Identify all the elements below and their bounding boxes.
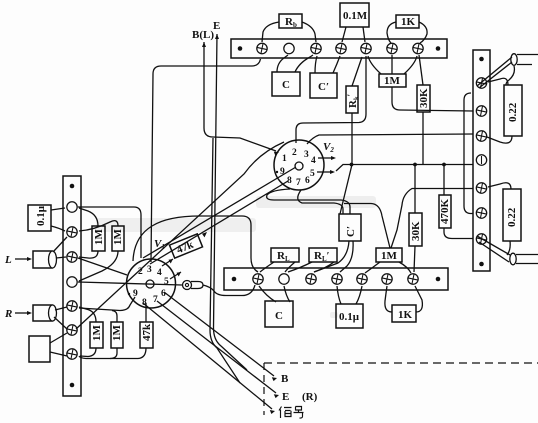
resistor Rk' box [346,86,358,113]
wire terminal1 to top jack [477,57,512,86]
V2 pin4 arrow [318,157,333,159]
wire bus beside right strip [464,93,473,214]
wire top jack to 0.22a [506,66,514,85]
V2 pin5 arrow [317,171,332,173]
svg-text:C: C [282,79,290,91]
svg-text:L: L [4,254,12,266]
capacitor 0.22 box lower [503,189,521,241]
wire diag V1 pin3 to V2 pin8 [150,181,288,264]
resistor RL' box [309,248,337,262]
wire left strip t3 to V1 edge [78,258,127,275]
wire diag V2 to left strip t6 [76,142,284,329]
wire L jack leads [53,237,67,252]
svg-text:RL′: RL′ [314,250,330,263]
wire diag V1 pin7 to E [157,301,276,393]
wire E vertical [214,34,248,370]
dashed boundary [264,362,538,364]
wire C' mid to bottom strip t3 [314,241,349,272]
svg-text:0.1M: 0.1M [343,10,368,22]
wire 0.22 upper leads [488,78,508,85]
wire 1M left a leads [79,208,98,226]
resistor 47k box tilted near V1 [169,234,202,258]
wire left strip t1 to V1 pin2 [78,207,141,258]
wire top horizontal feed [151,59,261,262]
eyelet terminal right of V1 [183,281,192,290]
wire R jack leads [55,307,67,310]
resistor 30K box top [417,85,430,112]
svg-text:6: 6 [161,289,166,299]
svg-text:1K: 1K [401,16,416,28]
faint scan artifacts [96,196,376,318]
wire 30K top to junction [422,112,424,165]
wire V1 pin8 to 47k [145,303,147,322]
svg-text:1K: 1K [398,309,413,321]
svg-text:1M: 1M [381,250,398,262]
wire 1M top lead to right strip t5 [391,189,473,249]
svg-text:0.22: 0.22 [507,102,519,122]
svg-text:R: R [4,308,12,320]
wire 1M left c leads [79,307,96,322]
svg-text:1: 1 [282,154,287,164]
left terminal strip [63,176,81,396]
wire second vertical to signal [210,138,240,383]
capacitor C box bottom [265,301,293,327]
wire 1M top leads [368,56,381,74]
svg-text:7: 7 [153,295,158,305]
capacitor C' mid box [339,214,361,241]
wire 0.1M leads [342,27,346,42]
wire shield box leads [50,333,67,343]
wire main horizontal through V1 [78,282,182,285]
input jack R [33,305,52,321]
svg-text:1M: 1M [384,75,401,87]
output jack top-right [511,54,517,66]
V1 pin5 arrow [170,272,181,279]
resistor 30K box mid [409,213,422,246]
svg-text:Rb: Rb [285,16,297,29]
wire V2 pin2 to right strip t3 [296,56,366,143]
resistor 1M box left b [112,226,124,251]
resistor RL box [271,248,299,262]
wire junction to 30K mid [414,165,416,214]
wire V2 pin3 joins bundle [307,134,473,144]
wire Rb leads [262,22,279,42]
svg-text:4: 4 [311,156,316,166]
svg-text:470K: 470K [439,199,451,225]
svg-text:(R): (R) [302,391,318,403]
resistor 1K box top [396,15,419,28]
resistor 0.1M box [340,3,369,27]
svg-text:E: E [213,20,220,32]
wire V2 pin7 band to C' mid [298,190,343,214]
resistor 1M box left a [92,226,105,251]
svg-text:E: E [282,391,289,403]
wire 470K to right strip t7 [444,228,473,239]
wire Rk' leads [352,57,362,86]
wire 1M left d leads [112,311,117,323]
wire C' top leads [315,56,317,73]
wire diag V1 pin9 to signal [143,303,272,409]
svg-text:3: 3 [147,265,152,275]
svg-text:30K: 30K [410,221,422,241]
wire 30K top to top strip t7 [419,55,423,85]
svg-text:7: 7 [296,178,301,188]
svg-text:1M: 1M [91,325,103,342]
wire top strip t6 to right strip t2 [392,87,473,111]
resistor 1M box left c [90,322,103,348]
wire 1M bottom leads [365,262,380,273]
wire 1K bottom leads [385,286,392,312]
svg-text:2: 2 [292,148,297,158]
resistor 47k box left [140,322,153,348]
svg-text:B: B [281,373,289,385]
wire C bottom leads [259,286,276,302]
svg-text:47k: 47k [141,323,153,341]
wire terminal7 to bottom jack [477,236,510,255]
svg-text:B(L): B(L) [192,29,214,41]
wire diag V1 pin2 to V2 pin9 [143,167,296,258]
wire 0.22 lower leads [488,183,511,189]
capacitor C' box [310,73,337,98]
svg-text:5: 5 [164,277,169,287]
wire 1K top leads [387,22,396,43]
resistor Rb box [279,14,302,28]
wire V1 pin9 to left strip t5 [79,297,135,311]
svg-text:5: 5 [310,169,315,179]
resistor 1M box top [379,74,406,87]
wire 1M left b leads [79,221,118,231]
wire C top leads [277,55,288,72]
svg-text:6: 6 [305,176,310,186]
svg-text:RL: RL [277,250,290,263]
tube socket V2 [274,140,324,190]
svg-text:C: C [275,310,283,322]
right terminal strip [473,50,490,271]
svg-text:30K: 30K [418,88,430,108]
svg-text:3: 3 [304,150,309,160]
wire 470K junction lead [443,165,445,196]
wire 0.1u bottom leads [337,286,341,304]
output jack bottom-right [510,253,516,265]
resistor 1K box bottom [392,305,416,322]
wire C' mid to bottom strip t4 [340,241,353,272]
svg-text:C′: C′ [345,226,357,237]
capacitor 0.1u box bottom [336,304,363,328]
wire 47k left bottom [79,348,146,359]
svg-text:4: 4 [157,268,162,278]
wire eyelet to bottom strip t1 [203,285,255,296]
capacitor C box [272,72,300,96]
wire diag V1 pin6 to B [164,292,274,376]
svg-text:0.22: 0.22 [506,207,518,227]
wire V2 pin5 horizontal to right strip [336,165,473,172]
svg-text:9: 9 [133,289,138,299]
capacitor 0.1u box left [28,205,51,231]
wire RL leads [260,262,274,272]
resistor 1M box left d [111,322,123,348]
input jack L [33,251,52,268]
V1 pin4 arrow [162,259,173,266]
resistor 1M box above bottom strip [376,248,402,262]
wire arc over 47k tilted [133,216,258,272]
svg-text:0.1μ: 0.1μ [35,205,47,226]
top terminal strip [231,39,447,58]
wire 0.1u left leads [51,208,65,210]
bottom terminal strip [224,268,448,290]
wire top strip t6 lead down [391,55,393,74]
svg-text:0.1μ: 0.1μ [339,311,360,323]
label Chinese xinhao [279,407,304,419]
wire 1M top lead to C' mid [344,204,390,249]
wire V2 pin8 band to C' mid [267,189,350,214]
tube socket V1 [127,259,176,308]
svg-text:C′: C′ [318,81,329,93]
resistor 470K box [439,195,451,228]
wire B(L) vertical to V2 pin1 [204,42,276,151]
svg-text:1M: 1M [111,325,123,342]
wire 30K mid to bottom strip t7 [414,246,415,272]
wire RL' leads [288,262,312,272]
svg-text:V2: V2 [323,141,334,154]
capacitor 0.22 box upper [504,85,522,136]
shield box bottom-left [29,336,50,362]
